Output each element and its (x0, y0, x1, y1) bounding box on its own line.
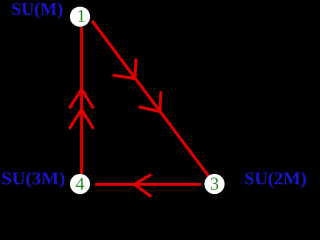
wire: edge node1 -> node3 (diagonal) (92, 21, 215, 184)
label SU(M) (12, 2, 62, 18)
node 3 circle (204, 174, 224, 194)
label SU(2M) (245, 172, 306, 188)
arrowhead 1 of 2 on diagonal edge (points down-right) (113, 58, 136, 78)
node 3 digit (211, 178, 218, 190)
arrowhead on horizontal edge (points left) (134, 174, 151, 196)
node 1 circle (70, 7, 90, 27)
node 4 circle (70, 174, 90, 194)
node 1 digit (78, 10, 84, 22)
arrowhead 2 of 2 on diagonal edge (points down-right) (139, 91, 161, 111)
label SU(3M) (2, 172, 64, 188)
arrowhead 2 of 2 on vertical edge (points up) (69, 109, 93, 128)
arrowhead 1 of 2 on vertical edge (points up) (69, 89, 93, 108)
wire: edge node3 -> node4 (horizontal) (95, 183, 201, 186)
node 4 digit (76, 178, 84, 190)
wire: edge node4 -> node1 (vertical) (80, 27, 83, 174)
